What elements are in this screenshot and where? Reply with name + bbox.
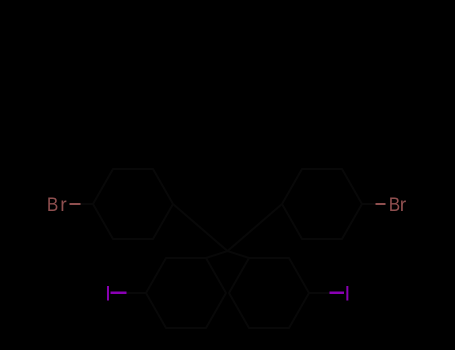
svg-text:r: r xyxy=(400,195,407,216)
svg-text:r: r xyxy=(60,195,67,216)
atom label Br right xyxy=(389,193,407,216)
bond I-C left (colored half) xyxy=(111,292,127,295)
bond Br-C left (colored half) xyxy=(70,203,81,205)
bond I-C right (colored half) xyxy=(329,292,344,295)
benzene ring lower-left xyxy=(146,258,226,328)
svg-text:B: B xyxy=(389,193,400,215)
bond C-I right (black half) xyxy=(309,292,329,294)
bond C-Br left (black half) xyxy=(81,203,94,205)
bond Br-C right (colored half) xyxy=(375,203,385,205)
svg-text:B: B xyxy=(47,193,58,215)
atom label Br left xyxy=(47,193,67,216)
benzene ring upper-left xyxy=(93,169,173,239)
benzene ring upper-right xyxy=(282,169,362,239)
spiro linkage bonds xyxy=(173,204,282,258)
bond C-I left (black half) xyxy=(126,292,146,294)
bond C-Br right (black half) xyxy=(362,203,375,205)
svg-text:I: I xyxy=(344,282,350,306)
benzene ring lower-right xyxy=(229,258,309,328)
svg-text:I: I xyxy=(105,282,111,306)
